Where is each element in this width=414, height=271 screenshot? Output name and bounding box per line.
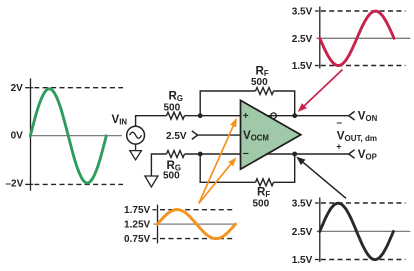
svg-text:2V: 2V xyxy=(11,83,24,94)
input terminal chevron 2.5V xyxy=(192,131,198,140)
VOP output sine wave (black) xyxy=(320,203,394,259)
VOCM plot 0.75V dashed level xyxy=(160,238,234,240)
VOCM plot 1.25V center line xyxy=(154,223,237,225)
orange arrow to + input xyxy=(199,126,233,204)
svg-text:3.5V: 3.5V xyxy=(292,198,313,209)
resistor RF top xyxy=(256,88,274,95)
node B (bottom input junction) xyxy=(198,152,203,157)
svg-text:3.5V: 3.5V xyxy=(292,6,313,17)
orange arrow to - input xyxy=(199,164,231,203)
svg-text:500: 500 xyxy=(251,77,268,88)
wire RF top to output node xyxy=(274,91,295,116)
svg-text:+: + xyxy=(336,141,341,151)
node VON output junction xyxy=(292,113,297,118)
wire RG top to amp + input xyxy=(185,115,241,117)
wire VON output xyxy=(267,115,349,117)
VOCM sine wave (orange) xyxy=(158,210,236,239)
green input waveform plot axis xyxy=(25,78,33,190)
output terminal chevron VON xyxy=(349,111,355,120)
green plot 0V center line (wire to source) xyxy=(31,135,123,137)
VOP waveform plot axis (bottom right) xyxy=(315,198,320,263)
inversion bubble on VON output xyxy=(271,113,277,119)
svg-text:1.25V: 1.25V xyxy=(124,220,150,231)
VON plot 1.5V dashed level xyxy=(321,65,406,67)
VOCM plot 1.75V dashed level xyxy=(160,209,234,211)
red arrow from VON waveform to output node xyxy=(304,70,342,106)
svg-text:500: 500 xyxy=(253,199,270,210)
resistor RF bottom xyxy=(256,179,274,186)
green plot +2V dashed level xyxy=(34,87,123,89)
svg-text:1.75V: 1.75V xyxy=(124,205,150,216)
svg-text:0V: 0V xyxy=(11,130,24,141)
VOP plot 1.5V dashed level xyxy=(321,259,406,261)
voltage source VIN xyxy=(127,126,145,144)
svg-text:1.5V: 1.5V xyxy=(292,255,313,266)
op-amp U1 (fully differential) xyxy=(241,100,301,169)
VON plot 3.5V dashed level xyxy=(321,10,406,12)
output terminal chevron VOP xyxy=(349,150,355,159)
svg-text:–: – xyxy=(337,118,343,129)
VOCM waveform plot axis (bottom middle) xyxy=(153,205,158,244)
wire ground to RG bottom xyxy=(151,154,166,176)
node VOP output junction xyxy=(292,152,297,157)
VOP plot 3.5V dashed level xyxy=(321,202,406,204)
svg-text:1.5V: 1.5V xyxy=(292,61,313,72)
svg-text:500: 500 xyxy=(164,103,181,114)
svg-text:+: + xyxy=(243,111,249,122)
VOP plot 2.5V center line xyxy=(317,230,411,232)
svg-text:2.5V: 2.5V xyxy=(166,131,187,142)
wire bottom feedback (junction down and right to RF) xyxy=(200,154,255,182)
ground (bottom RG) xyxy=(145,176,158,187)
black arrow from VOP output node to waveform xyxy=(303,162,346,198)
resistor RG bottom xyxy=(167,151,185,158)
node A (top input junction) xyxy=(198,113,203,118)
VON output sine wave (red) xyxy=(320,11,394,65)
svg-text:–2V: –2V xyxy=(6,179,24,190)
wire 2.5V to VOCM pin xyxy=(198,134,241,136)
svg-text:–: – xyxy=(243,148,249,160)
svg-text:0.75V: 0.75V xyxy=(124,234,150,245)
wire source top to RG top xyxy=(136,116,167,127)
VON waveform plot axis (top right) xyxy=(315,7,320,69)
wire RF bottom to output node xyxy=(274,154,295,182)
wire VOP output xyxy=(266,153,349,155)
svg-text:500: 500 xyxy=(163,171,180,182)
wire RG bottom to amp - input xyxy=(185,153,241,155)
VON plot 2.5V center line xyxy=(317,37,411,39)
wire top feedback (junction up and right to RF) xyxy=(200,91,255,116)
green input sine wave xyxy=(30,89,106,183)
svg-text:2.5V: 2.5V xyxy=(292,34,313,45)
green plot -2V dashed level xyxy=(34,183,123,185)
ground (below source) xyxy=(130,144,142,160)
svg-text:2.5V: 2.5V xyxy=(292,227,313,238)
resistor RG top xyxy=(167,112,185,119)
